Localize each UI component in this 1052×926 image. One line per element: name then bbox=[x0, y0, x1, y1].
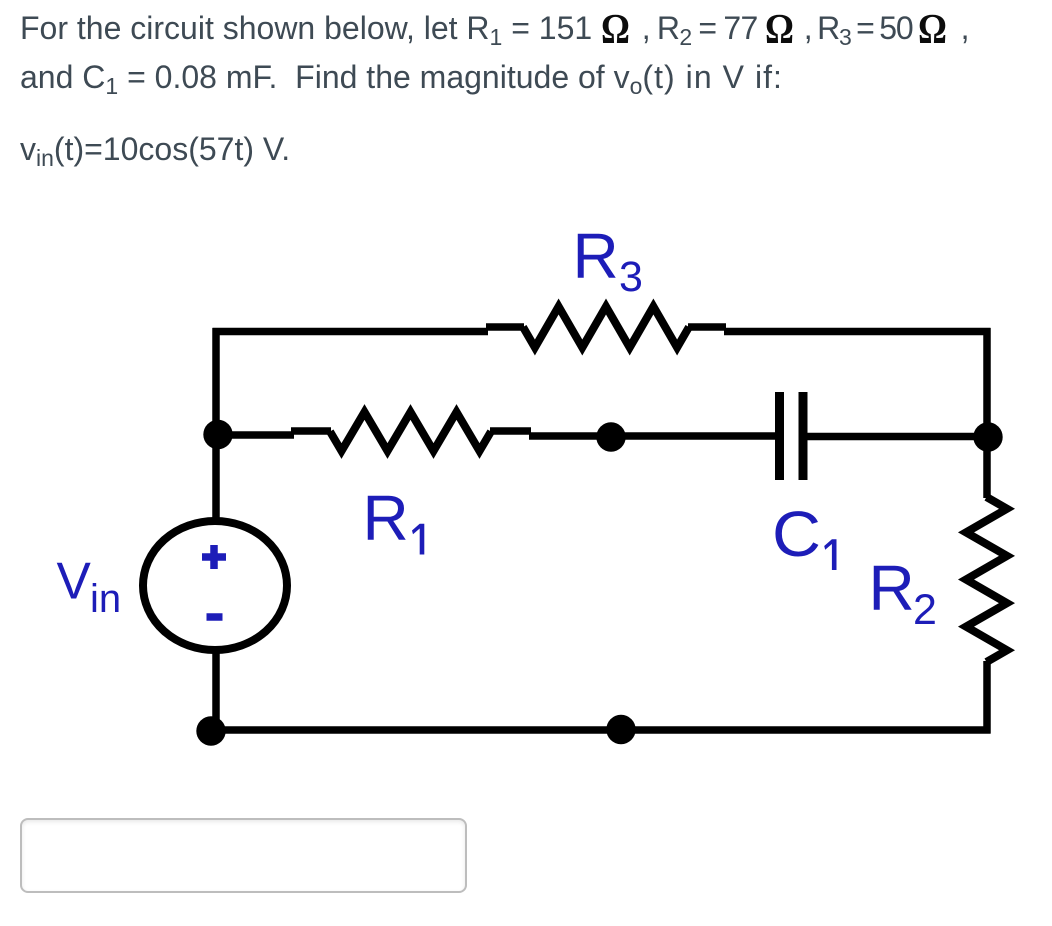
wire: R1 right lead bbox=[490, 427, 531, 435]
capacitor C1 right plate bbox=[799, 392, 808, 480]
wire: middle rail from capacitor to node C bbox=[807, 433, 990, 441]
node C (right middle junction) bbox=[973, 422, 1002, 451]
wire: right vertical lower bbox=[983, 661, 991, 734]
voltage source V_in circle bbox=[143, 521, 287, 650]
resistor R1 bbox=[330, 412, 491, 451]
wire: right vertical upper bbox=[983, 328, 991, 440]
svg-text:C: C bbox=[772, 498, 821, 570]
resistor R3 bbox=[523, 307, 689, 348]
problem statement line 1 bbox=[20, 4, 969, 55]
node D (bottom left junction) bbox=[196, 716, 225, 745]
resistor R2 bbox=[966, 497, 1007, 662]
svg-text:R: R bbox=[573, 220, 619, 292]
node A (left middle junction) bbox=[203, 420, 232, 449]
svg-text:V: V bbox=[57, 552, 92, 610]
answer input box bbox=[20, 818, 467, 893]
wire: left vertical upper bbox=[212, 328, 220, 518]
wire: R3 left lead bbox=[486, 323, 524, 331]
svg-text:in: in bbox=[90, 577, 121, 621]
minus sign of source bbox=[207, 613, 223, 621]
wire: middle rail from R1 to capacitor bbox=[529, 432, 776, 440]
svg-text:2: 2 bbox=[913, 586, 937, 634]
wire: left vertical lower (source to bottom node) bbox=[212, 650, 220, 731]
wire: top rail left segment bbox=[213, 328, 489, 336]
svg-text:3: 3 bbox=[619, 253, 643, 301]
wire: R1 left lead bbox=[291, 427, 331, 435]
wire: bottom rail bbox=[211, 726, 991, 734]
problem statement line 2 bbox=[20, 53, 783, 104]
capacitor C1 left plate bbox=[775, 392, 784, 480]
wire: middle rail from node A to R1 bbox=[216, 431, 294, 439]
problem statement line 3 bbox=[20, 125, 290, 176]
svg-text:R: R bbox=[363, 482, 409, 554]
wire: top rail right segment bbox=[724, 328, 991, 336]
wire: R3 right lead bbox=[688, 323, 726, 331]
svg-text:R: R bbox=[869, 552, 915, 624]
node E (bottom middle junction) bbox=[606, 715, 635, 744]
node B (middle junction) bbox=[596, 422, 625, 451]
wire: node C to R2 bbox=[983, 434, 991, 498]
plus sign of source bbox=[202, 545, 226, 569]
